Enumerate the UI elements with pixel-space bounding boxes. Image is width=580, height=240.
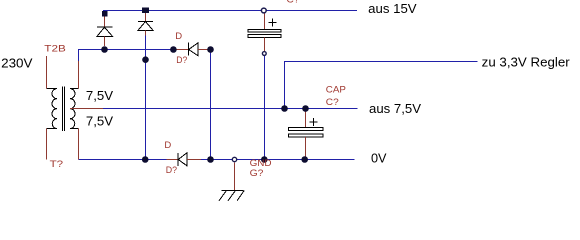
svg-text:aus 7,5V: aus 7,5V <box>369 101 421 116</box>
junction dot D? left row2 <box>170 46 177 53</box>
junction square at D1 top rail corner <box>102 11 108 17</box>
svg-text:G?: G? <box>250 168 264 179</box>
transformer T2B secondary winding <box>70 89 79 129</box>
junction dot on D2 vertical <box>142 56 149 63</box>
capacitor C? top (15V filter) <box>248 13 281 52</box>
diode D1 vertical left (to +15V rail) <box>97 17 113 47</box>
svg-text:D?: D? <box>176 55 187 66</box>
svg-text:D?: D? <box>166 165 177 176</box>
svg-text:C?: C? <box>326 97 339 108</box>
capacitor CAP C? bottom (7,5V filter) <box>289 109 324 160</box>
diode D? horizontal bottom (row4) <box>167 153 201 166</box>
wire row4 0V net left segment <box>79 159 167 161</box>
junction dot C? lead at 0V <box>261 156 268 163</box>
junction dot C? top on row3 <box>302 105 309 112</box>
transformer primary bottom pin lead <box>46 129 48 160</box>
open circle junction C? top at rail <box>261 8 266 13</box>
open circle junction ground tap at 0V <box>232 157 236 161</box>
transformer secondary top pin lead <box>78 61 80 89</box>
junction square at D2 top rail <box>142 7 149 13</box>
wire row3 aus 7,5V net <box>103 108 358 110</box>
open circle junction on C? bottom lead <box>262 52 266 56</box>
wire vertical from D? anode down to 0V <box>210 50 212 160</box>
transformer center tap lead <box>70 108 103 110</box>
transformer secondary bottom pin lead <box>78 129 80 160</box>
svg-text:aus 15V: aus 15V <box>368 1 417 16</box>
transformer core <box>63 87 65 132</box>
diode D2 vertical right (to +15V rail) <box>138 13 153 35</box>
junction dot D? right row2 <box>207 46 214 53</box>
junction dot zu 3,3V tap on row3 <box>281 105 288 112</box>
junction dot CAP bottom at 0V <box>301 156 308 163</box>
wire row2 from transformer secondary top to D? <box>79 50 174 62</box>
svg-text:T?: T? <box>50 159 64 170</box>
wire zu 3,3V Regler branch <box>285 62 478 109</box>
svg-text:D: D <box>164 140 171 151</box>
transformer primary top pin lead <box>46 56 48 89</box>
svg-text:230V: 230V <box>1 55 33 70</box>
svg-text:zu 3,3V Regler: zu 3,3V Regler <box>482 55 571 70</box>
diode D? horizontal top (row2) <box>173 42 210 56</box>
junction dot D? anode vertical at 0V <box>207 156 214 163</box>
ground G? <box>219 162 244 201</box>
wire vertical from diode D2 down to 0V <box>145 35 147 159</box>
svg-text:7,5V: 7,5V <box>86 88 114 103</box>
svg-text:7,5V: 7,5V <box>86 114 114 129</box>
wire row4 0V net right segment <box>201 159 354 161</box>
wire top rail +15V net <box>103 10 357 12</box>
svg-text:CAP: CAP <box>326 85 346 96</box>
transformer T2B primary winding <box>47 89 58 129</box>
svg-text:0V: 0V <box>371 151 387 166</box>
wire vertical capacitor C? bottom to 0V <box>264 56 266 160</box>
svg-text:D: D <box>175 31 182 42</box>
junction dot D1 bottom row2 <box>101 46 108 53</box>
svg-text:C?: C? <box>287 0 300 6</box>
junction dot D2 vertical at 0V <box>142 156 149 163</box>
svg-text:T2B: T2B <box>44 43 66 54</box>
